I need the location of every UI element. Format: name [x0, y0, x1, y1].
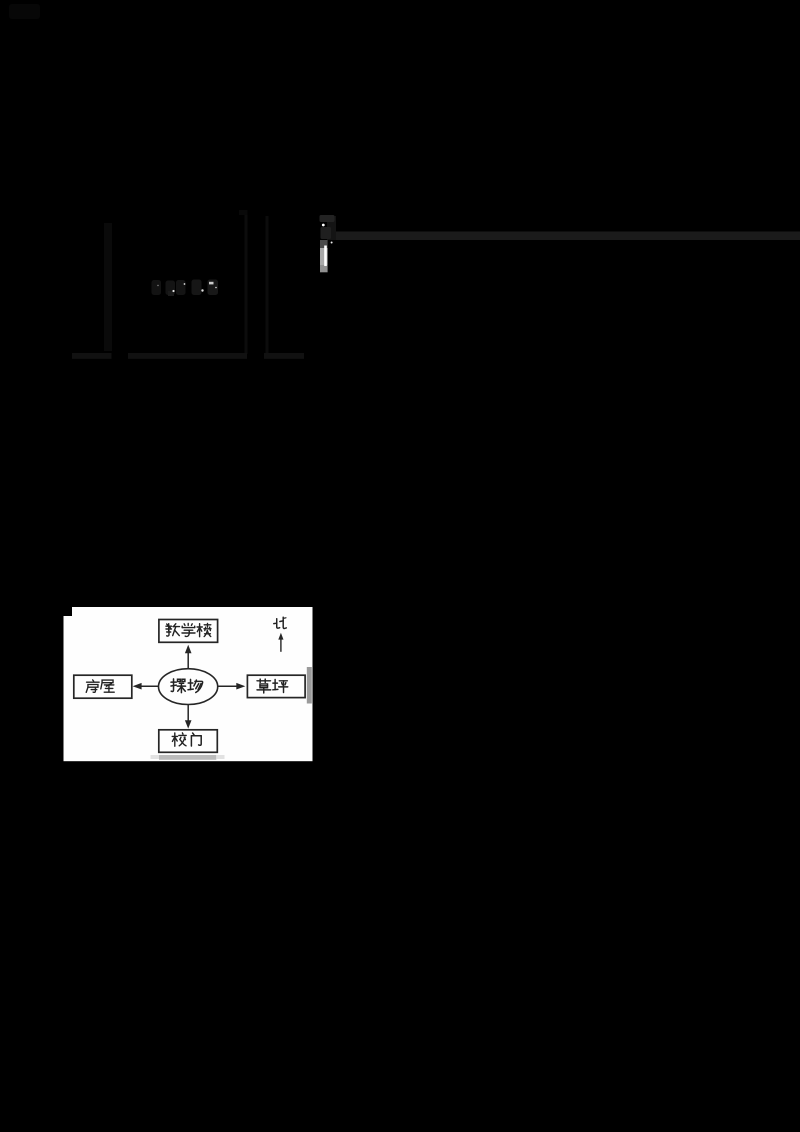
pen icon gray body [320, 248, 328, 265]
pen icon gray body lower [320, 265, 328, 272]
faint long horizontal band to right edge [331, 232, 800, 241]
north arrow [278, 633, 283, 652]
pen icon dark top marks [320, 215, 335, 222]
glyph 操 [171, 679, 185, 693]
pen icon body shadow top [320, 240, 328, 248]
pen icon white dot right [331, 242, 333, 244]
panel top-left black notch [64, 607, 73, 616]
faint figure: left vertical band [104, 223, 112, 351]
arrow right to lawn [218, 683, 246, 690]
faint text blob 3 [176, 280, 186, 295]
pen icon white bar [324, 246, 327, 267]
faint text blob 1 [152, 280, 162, 295]
faint figure: middle vertical line top notch [239, 210, 248, 215]
pen icon white dot upper [322, 224, 325, 227]
faint figure: middle vertical line [245, 215, 248, 354]
glyph 学 [182, 624, 195, 637]
box 校门 (school gate) [159, 730, 218, 753]
arrow left to house [133, 683, 159, 690]
glyph 教 [166, 624, 180, 636]
panel gray artifact right edge [307, 667, 312, 704]
box 教学楼 (teaching building) [159, 620, 218, 643]
ellipse 操场 (playground) [159, 669, 218, 705]
faint text blob 5 [208, 280, 219, 296]
glyph 校 [172, 733, 186, 746]
glyph 门 [191, 733, 201, 746]
box 草坪 (lawn) [247, 675, 305, 697]
text speckle dots [157, 283, 217, 292]
glyph 楼 [197, 624, 211, 637]
arrow down to school gate [185, 705, 192, 729]
faint figure: baseline segment middle [128, 353, 247, 359]
glyph 坪 [273, 680, 288, 693]
faint text blob underhang [168, 291, 174, 296]
glyph 北 (north) [274, 617, 287, 628]
faint corner mark top-left [9, 4, 40, 19]
pen icon faint backdrop [327, 216, 336, 240]
box 房屋 (house) [74, 675, 132, 698]
glyph 屋 [101, 680, 114, 692]
faint figure: right vertical line [266, 216, 269, 354]
gray bar left stub [151, 755, 160, 759]
faint text blob 2 [166, 281, 176, 296]
faint figure: baseline segment left [72, 353, 112, 359]
gray bar under school gate box [159, 755, 216, 760]
arrow up to teaching building [185, 645, 192, 669]
gray bar right stub [216, 755, 224, 759]
glyph 草 [257, 679, 271, 693]
glyph 房 [86, 680, 99, 692]
faint figure: baseline segment right [264, 353, 304, 359]
faint text blob 4 [192, 280, 202, 296]
glyph 场 [188, 679, 203, 692]
text bright patch [209, 282, 214, 285]
white diagram panel [64, 607, 313, 761]
pen icon dark mid blob [321, 227, 332, 239]
